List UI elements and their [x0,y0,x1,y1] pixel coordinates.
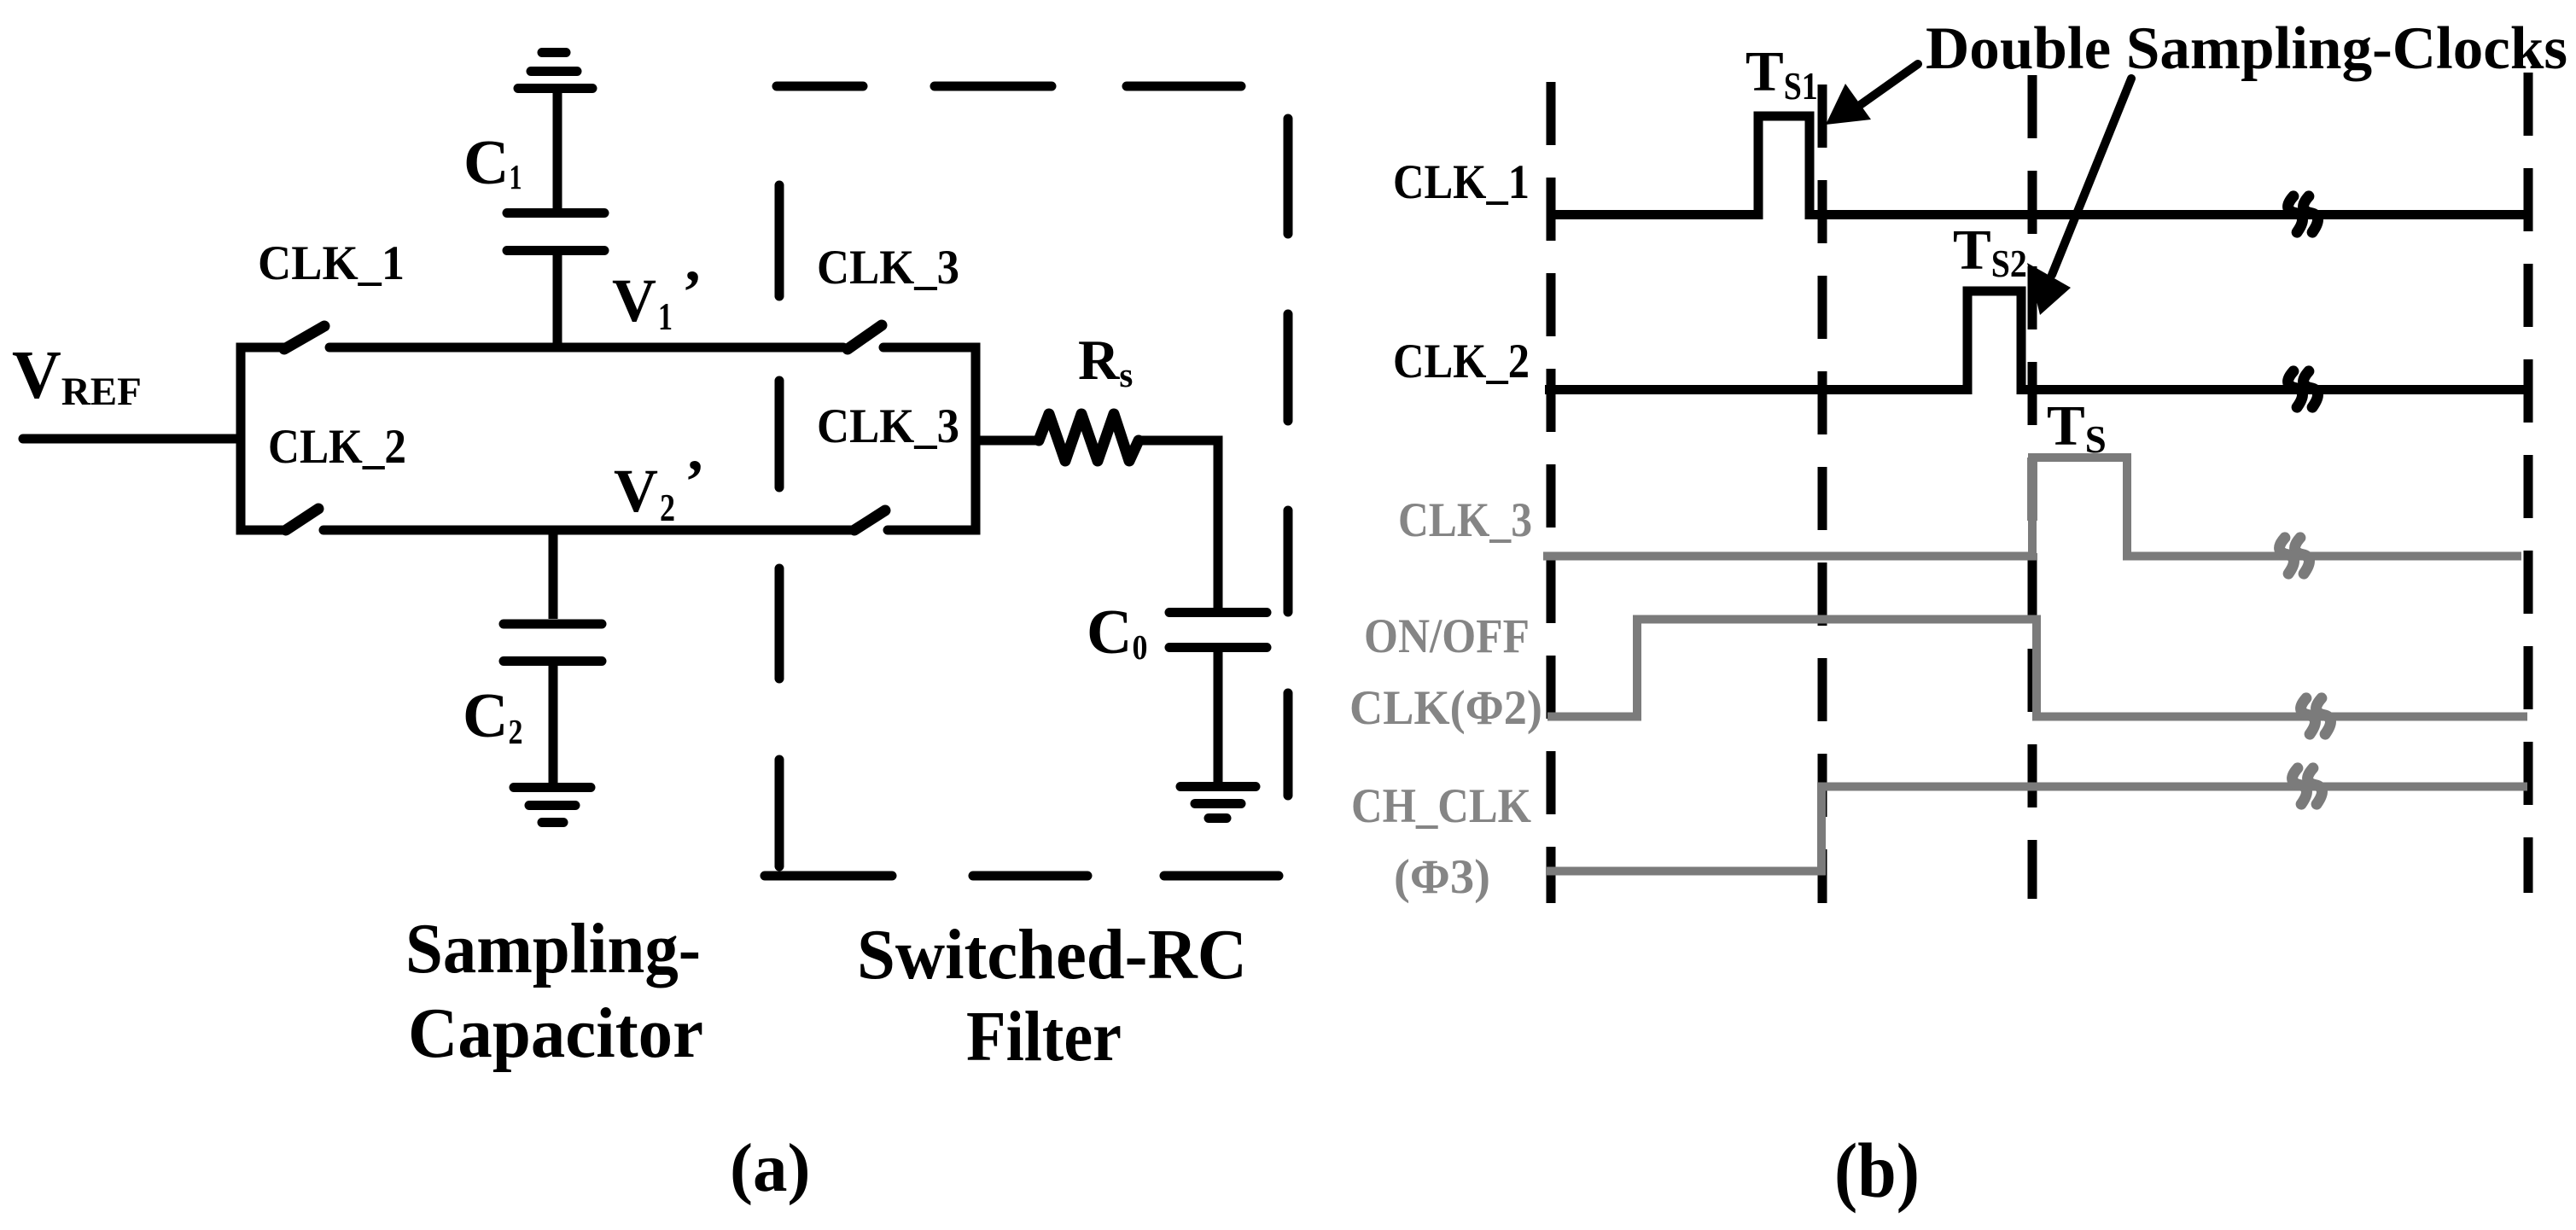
svg-text:(Φ3): (Φ3) [1394,850,1490,904]
svg-text:Switched-RC: Switched-RC [857,915,1247,994]
svg-text:C1: C1 [463,128,522,198]
svg-text:V1’: V1’ [612,258,702,338]
svg-text:CLK_3: CLK_3 [817,241,959,294]
svg-text:TS1: TS1 [1746,40,1818,108]
svg-text:CH_CLK: CH_CLK [1351,779,1531,833]
svg-text:TS2: TS2 [1953,219,2027,285]
svg-text:CLK_3: CLK_3 [1398,493,1532,547]
svg-text:TS: TS [2047,394,2107,461]
svg-text:Double Sampling-Clocks: Double Sampling-Clocks [1926,15,2567,82]
svg-text:CLK_1: CLK_1 [1393,155,1530,209]
svg-text:CLK(Φ2): CLK(Φ2) [1349,681,1542,735]
svg-text:ON/OFF: ON/OFF [1364,609,1530,663]
svg-text:(a): (a) [730,1129,810,1206]
svg-text:V2’: V2’ [614,447,705,529]
svg-text:Rs: Rs [1078,329,1133,394]
svg-text:VREF: VREF [12,338,142,414]
svg-text:C0: C0 [1087,598,1147,667]
svg-text:(b): (b) [1834,1128,1920,1214]
svg-text:Filter: Filter [966,997,1122,1076]
svg-text:CLK_2: CLK_2 [1393,335,1530,388]
svg-text:CLK_3: CLK_3 [817,399,959,453]
svg-text:Capacitor: Capacitor [408,994,703,1073]
svg-text:C2: C2 [463,681,522,751]
svg-text:Sampling-: Sampling- [405,909,701,988]
svg-text:CLK_2: CLK_2 [268,420,406,474]
svg-text:CLK_1: CLK_1 [258,236,405,290]
